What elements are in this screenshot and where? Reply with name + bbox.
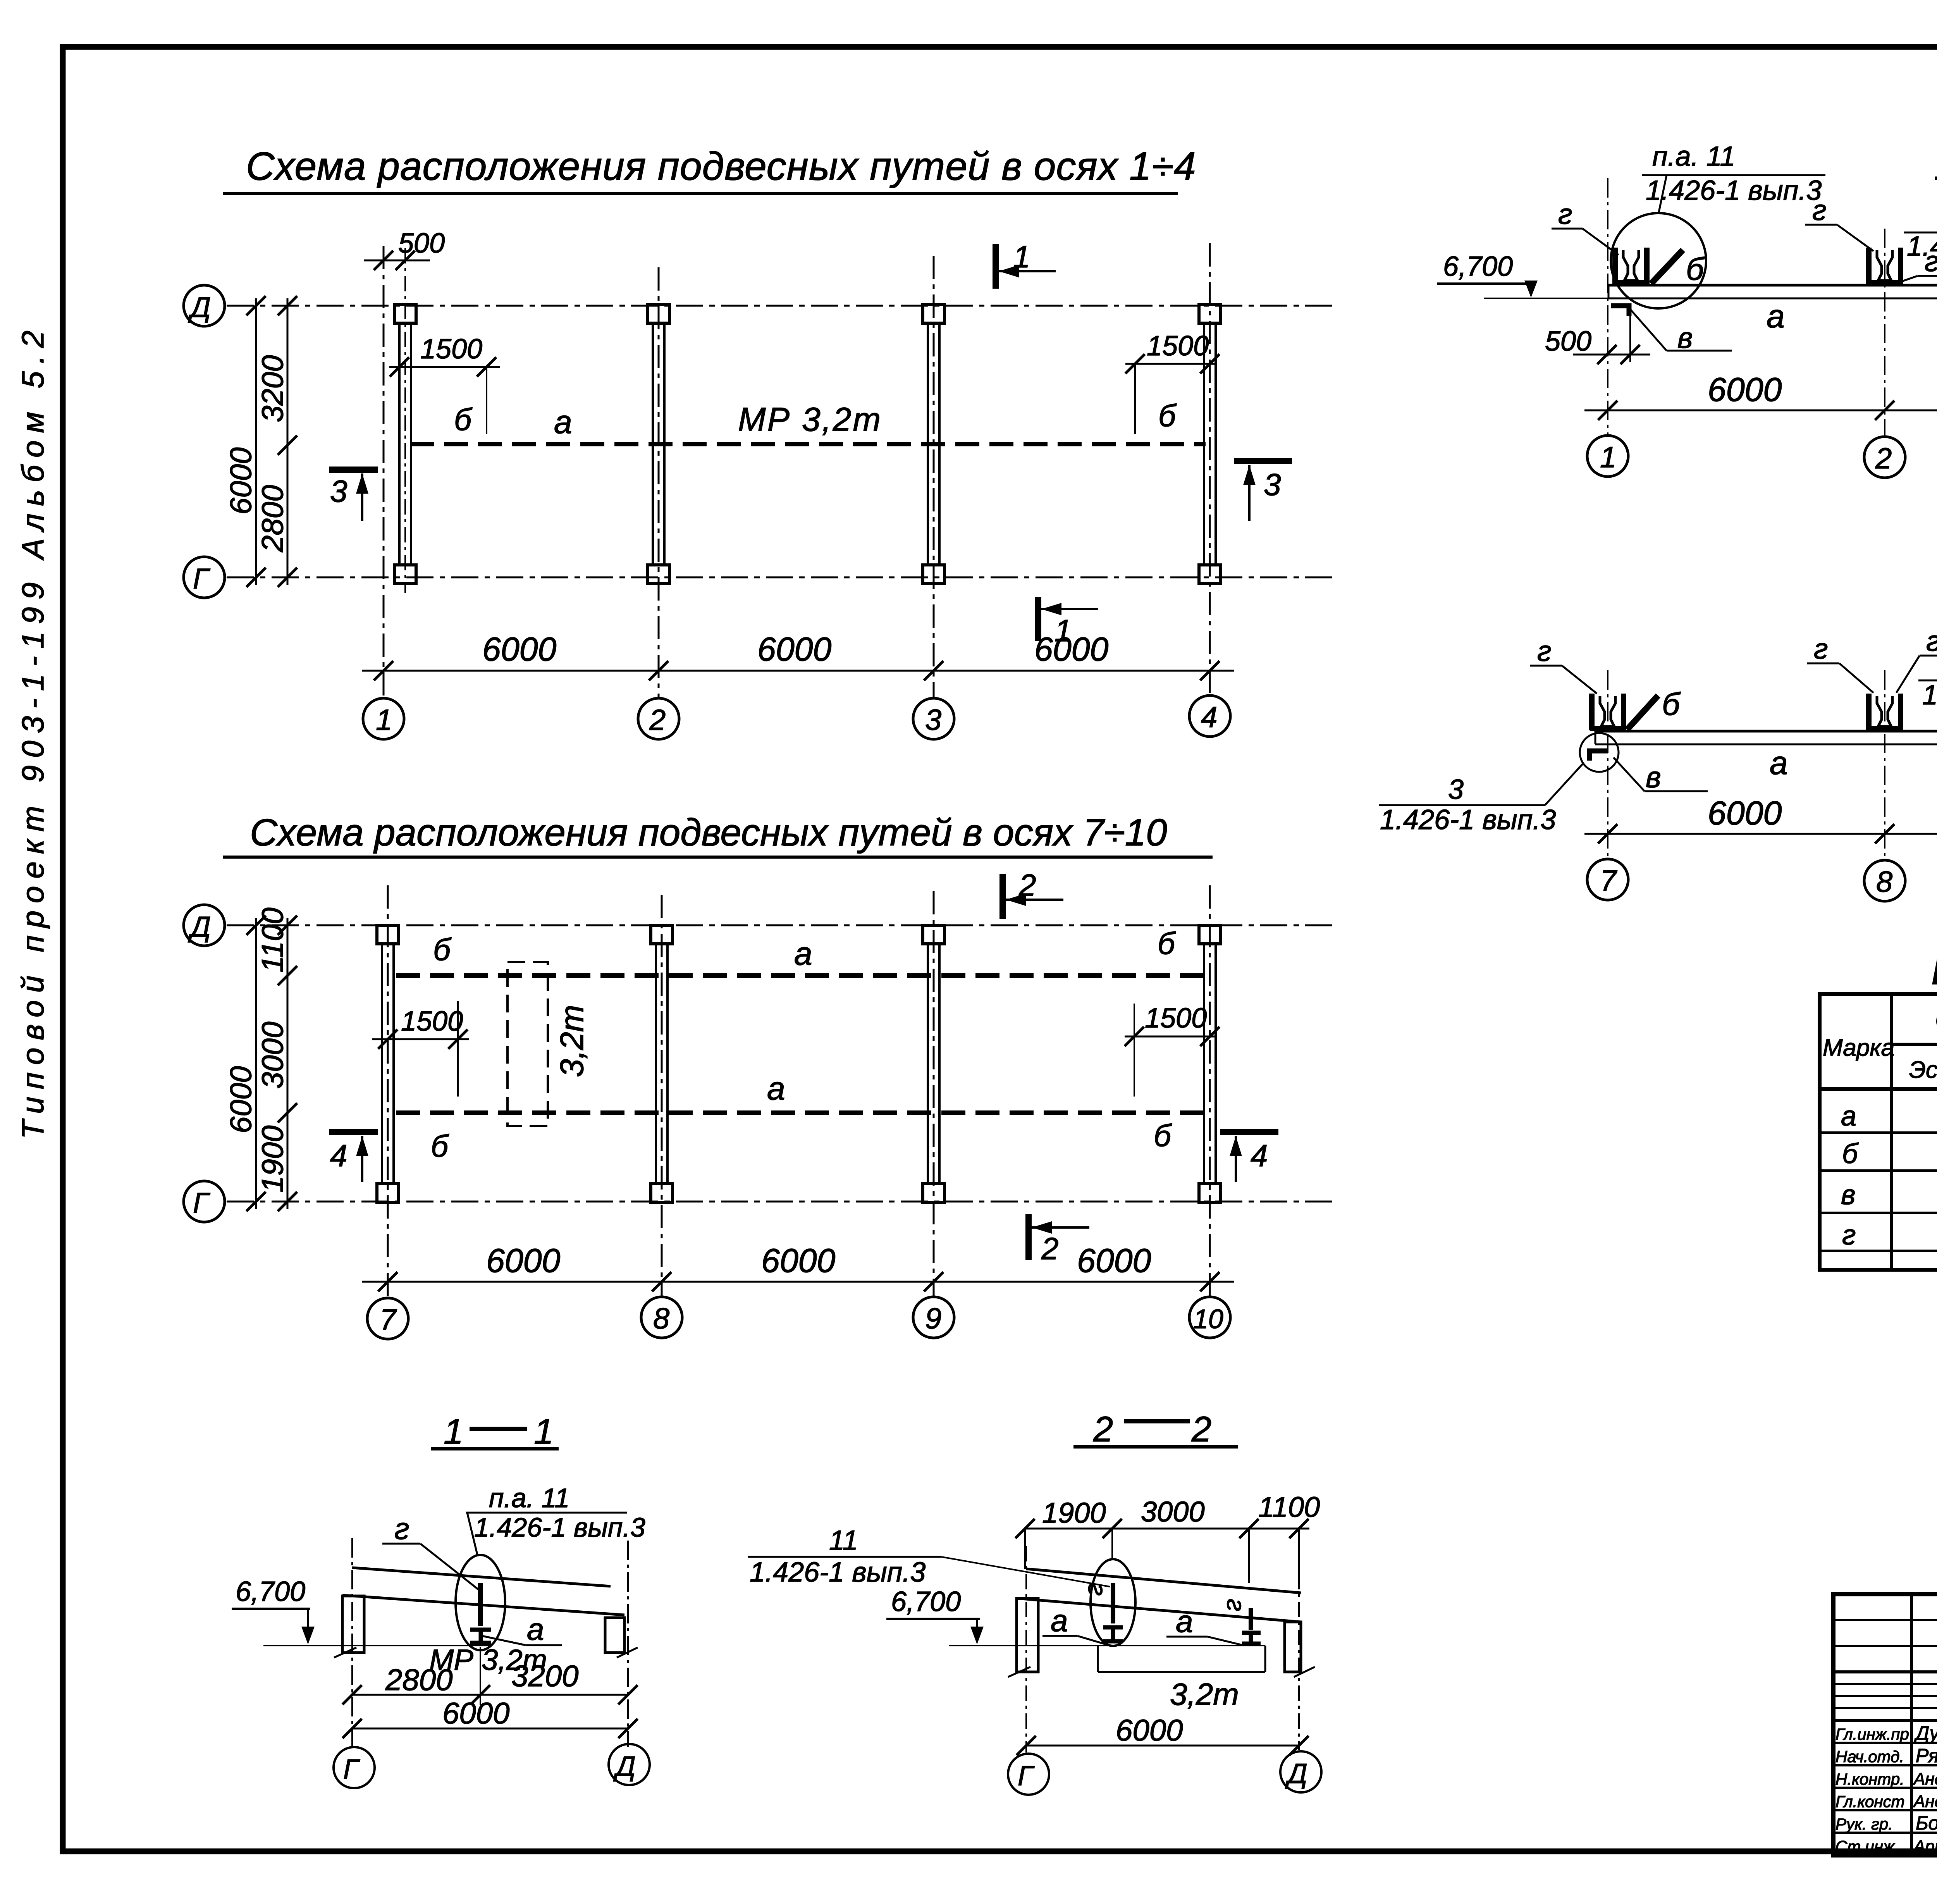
svg-text:г: г (1083, 1583, 1112, 1596)
column square 8Д (651, 925, 673, 944)
svg-text:г: г (1842, 1220, 1856, 1251)
sec4-4 label 1 center (1918, 650, 1937, 728)
sec2-2 label g rot 1 (1083, 1583, 1112, 1596)
svg-text:а: а (1841, 1101, 1856, 1132)
section mark 1 bottom (1038, 597, 1098, 648)
svg-text:1.426-1 вып.3: 1.426-1 вып.3 (1646, 175, 1822, 206)
svg-text:а: а (1176, 1604, 1193, 1639)
sec1-1 rail I symbol (470, 1630, 491, 1643)
svg-text:1100: 1100 (1258, 1491, 1320, 1523)
sec4-4 rail beam (1595, 731, 1937, 744)
svg-text:1.426-1вып.3: 1.426-1вып.3 (1907, 231, 1937, 262)
sec4-4 label g8b (1896, 625, 1937, 693)
sec4-4 label g7 (1530, 635, 1597, 694)
svg-text:Г: Г (1018, 1761, 1035, 1792)
svg-text:б: б (1158, 926, 1176, 961)
dim chain 6000 vertical plan2 (224, 916, 266, 1211)
sec1-1 axis Д line (627, 1541, 629, 1747)
svg-text:8: 8 (653, 1302, 669, 1335)
svg-text:б: б (433, 932, 452, 967)
axis Г2 row line (227, 1201, 1335, 1203)
sec3-3 label 1 center (1904, 204, 1937, 283)
svg-text:10: 10 (1193, 1304, 1223, 1334)
svg-text:3200: 3200 (511, 1659, 579, 1693)
sec1-1 label a (482, 1612, 562, 1646)
axis Д2 row line (227, 924, 1335, 926)
title signature names (1913, 1722, 1937, 1856)
column square 10Д (1199, 925, 1221, 944)
svg-text:п.а. 11: п.а. 11 (1652, 141, 1735, 172)
sec2-2 rail I symbol 1 (1103, 1627, 1123, 1641)
svg-text:г: г (1537, 635, 1552, 667)
svg-text:1.426-1 вып.3: 1.426-1 вып.3 (474, 1512, 645, 1542)
sec2-2 hoist outline box (1098, 1646, 1265, 1711)
svg-text:1500: 1500 (401, 1006, 463, 1037)
sec3-3 dim line 6000 (1584, 371, 1937, 420)
svg-text:Думан: Думан (1914, 1722, 1937, 1744)
dim chain 1100/3000/1900 vertical (255, 907, 297, 1211)
section mark 1 top (996, 239, 1056, 289)
svg-text:б: б (454, 402, 473, 437)
sec3-3 hanger channel 2 (1867, 248, 1903, 284)
svg-text:2: 2 (1875, 442, 1892, 475)
sec2-2 elevation 6.700 (886, 1586, 1265, 1646)
vedomost header texts (1823, 999, 1937, 1089)
axis 9 line (933, 891, 935, 1298)
sec1-1 axis Г line (351, 1538, 353, 1747)
svg-text:1500: 1500 (420, 334, 482, 365)
label b lower right (1154, 1118, 1172, 1153)
svg-text:6000: 6000 (1116, 1713, 1183, 1747)
svg-text:а: а (1767, 298, 1785, 334)
section mark 4 right (1220, 1132, 1278, 1182)
svg-text:1: 1 (534, 1412, 554, 1451)
sec1-1 dim 6000 (342, 1696, 638, 1738)
column square 4Д (1199, 305, 1221, 323)
svg-text:6000: 6000 (1034, 631, 1108, 668)
section mark 3 right (1234, 461, 1292, 521)
sec2-2 axis stubs (1026, 1546, 1299, 1753)
sec2-2 column Г (1008, 1598, 1038, 1677)
axis bubble 4 (1189, 695, 1230, 737)
svg-text:1900: 1900 (1042, 1497, 1106, 1529)
svg-text:1.426-1 вып.3: 1.426-1 вып.3 (1380, 804, 1556, 835)
svg-text:4: 4 (1201, 701, 1217, 734)
svg-text:1900: 1900 (255, 1125, 289, 1193)
beam member axis9 (928, 944, 939, 1184)
svg-text:Ст.инж.: Ст.инж. (1836, 1837, 1899, 1856)
svg-text:2: 2 (1191, 1410, 1211, 1449)
section mark 2 top (1003, 868, 1063, 919)
svg-text:г: г (1558, 198, 1572, 230)
sec2-2 column Д (1285, 1622, 1315, 1677)
title block frame (1833, 1594, 1937, 1855)
sec4-4 bubble 7 (1587, 859, 1628, 900)
vedomost header lines (1820, 1044, 1937, 1089)
svg-text:Рук. гр.: Рук. гр. (1836, 1815, 1893, 1833)
sec2-2 bubble Г (1008, 1754, 1049, 1795)
beam member axis3 (928, 323, 939, 565)
beam member axis1 (399, 323, 411, 565)
svg-text:а: а (1051, 1603, 1068, 1638)
column square 1Д (394, 305, 416, 323)
sec4-4 label g8a (1807, 633, 1873, 693)
sec3-3 axis1 line (1607, 178, 1608, 436)
svg-text:3000: 3000 (255, 1021, 289, 1089)
label a lower (767, 1070, 785, 1107)
svg-text:в: в (1646, 761, 1661, 794)
title block left grid (1833, 1594, 1937, 1855)
svg-text:Андриевская: Андриевская (1913, 1770, 1937, 1789)
svg-text:1: 1 (1013, 239, 1030, 274)
sec1-1 roof chord lower (342, 1595, 624, 1615)
dim 1500 plan2 right (1125, 1003, 1220, 1097)
label b right (1158, 398, 1177, 433)
sec3-3 label g2b (1897, 245, 1937, 283)
column square 4Г (1199, 565, 1221, 584)
sec2-2 label g rot 2 (1222, 1599, 1251, 1611)
hanger line axis1 offset (404, 248, 406, 593)
svg-text:Гл.инж.пр: Гл.инж.пр (1836, 1725, 1909, 1743)
sec3-3 detail circle axis1 (1611, 213, 1706, 308)
sec4-4 label v7 (1614, 757, 1708, 794)
vedomost row marks (1841, 1101, 1859, 1251)
sec2-2 bubble Д (1280, 1751, 1321, 1792)
axis Г row line (227, 577, 1335, 578)
column square 8Г (651, 1184, 673, 1202)
svg-text:7: 7 (380, 1303, 397, 1336)
dim 1500 right (1125, 331, 1220, 434)
svg-text:Г: Г (193, 1187, 210, 1219)
svg-text:г: г (1814, 633, 1828, 665)
svg-text:6,700: 6,700 (1443, 251, 1513, 282)
section 2-2 title (1073, 1410, 1238, 1449)
vedomost table frame (1820, 994, 1937, 1270)
sec3-3 brace b1 (1651, 250, 1705, 287)
column square 9Д (923, 925, 944, 944)
sec4-4 label a left (1770, 745, 1788, 781)
axis Д2 bubble (184, 905, 225, 946)
plan1 bottom dim line (362, 631, 1234, 680)
svg-text:б: б (431, 1129, 449, 1163)
sec3-3 corner angle left (1611, 306, 1629, 316)
monorail a upper dashed (396, 973, 1206, 978)
svg-text:1: 1 (1600, 441, 1616, 474)
sec3-3 hanger channel 1 (1613, 248, 1649, 284)
svg-text:Схема расположения подвесных п: Схема расположения подвесных путей в ося… (246, 144, 1196, 188)
svg-text:Д: Д (613, 1751, 636, 1782)
margin stamp text (15, 323, 50, 1139)
label a upper (794, 935, 812, 972)
svg-text:а: а (527, 1612, 544, 1646)
axis 4 line (1209, 243, 1211, 697)
svg-text:Д: Д (188, 291, 211, 323)
sec1-1 elevation 6.700 (232, 1576, 491, 1646)
svg-text:б: б (1158, 398, 1177, 433)
svg-text:3: 3 (925, 704, 941, 737)
sec3-3 rail beam (1608, 285, 1937, 298)
sec4-4 dim line 6000 (1584, 795, 1937, 844)
plan2 bottom dim line (362, 1242, 1234, 1291)
svg-text:3: 3 (1448, 774, 1464, 805)
svg-text:г: г (1812, 194, 1827, 226)
sec4-4 corner angle left + circle (1580, 733, 1619, 772)
svg-text:6000: 6000 (1708, 795, 1782, 832)
sec3-3 bubble 1 (1587, 436, 1628, 477)
column square 3Д (923, 305, 944, 323)
section mark 2 bottom (1029, 1214, 1089, 1266)
svg-text:6000: 6000 (486, 1242, 560, 1279)
sec2-2 label a 2 (1166, 1604, 1243, 1645)
vedomost row lines (1820, 1133, 1937, 1251)
svg-text:Рябуха: Рябуха (1916, 1745, 1937, 1766)
svg-text:6000: 6000 (442, 1696, 510, 1730)
sec3-3 axis2 line (1884, 229, 1885, 437)
axis Д row line (227, 305, 1335, 307)
svg-text:8: 8 (1876, 866, 1892, 899)
sec1-1 column Г (334, 1596, 364, 1658)
svg-text:Г: Г (343, 1754, 360, 1785)
sec1-1 bubble Г (334, 1747, 375, 1788)
svg-text:Г: Г (193, 563, 210, 595)
axis Г2 bubble (184, 1181, 225, 1222)
svg-text:6000: 6000 (757, 631, 831, 668)
sec4-4 brace b7 (1627, 687, 1681, 730)
axis bubble 8 (641, 1297, 682, 1338)
sec2-2 top dims 1900/3000/1100 (1015, 1491, 1320, 1589)
sec3-3 label g2 (1805, 194, 1873, 251)
svg-text:6000: 6000 (224, 447, 258, 515)
svg-text:в: в (1677, 322, 1693, 355)
sec4-4 hanger channel 8 (1867, 694, 1903, 730)
sec3-3 label g1 (1552, 198, 1619, 255)
svg-text:6,700: 6,700 (891, 1586, 961, 1617)
svg-text:3000: 3000 (1141, 1496, 1205, 1528)
label b left (454, 402, 473, 437)
plan 2 title (223, 811, 1213, 857)
sec3-3 bubble 2 (1864, 437, 1905, 478)
svg-text:Д: Д (188, 911, 211, 943)
svg-text:2: 2 (1093, 1410, 1113, 1449)
beam member axis4 (1204, 323, 1216, 565)
vedomost col lines (1892, 994, 1937, 1270)
svg-text:а: а (794, 935, 812, 972)
column square 1Г (394, 565, 416, 584)
monorail MP dashed (410, 442, 1206, 446)
svg-text:2: 2 (649, 704, 666, 737)
svg-text:7: 7 (1600, 864, 1617, 897)
svg-text:Артамонова: Артамонова (1913, 1837, 1937, 1856)
column square 7Г (377, 1184, 399, 1202)
sec3-3 elevation 6.700 (1437, 251, 1608, 298)
svg-text:Типовой проект 903-1-199: Типовой проект 903-1-199 Альбом 5.2 (15, 323, 50, 1139)
axis bubble 10 (1189, 1297, 1230, 1338)
axis bubble 2 (638, 698, 679, 739)
sec2-2 roof chord lower (1017, 1598, 1301, 1622)
axis bubble 3 (913, 698, 954, 739)
svg-text:Н.контр.: Н.контр. (1836, 1770, 1904, 1788)
dim 1500 left (389, 334, 500, 434)
sec2-2 dim 6000 (1017, 1713, 1309, 1755)
label b upper right (1158, 926, 1176, 961)
svg-text:6000: 6000 (761, 1242, 835, 1279)
sec1-1 dim 2800/3200 (342, 1647, 638, 1705)
axis Д bubble (184, 285, 225, 326)
axis 2 line (658, 267, 660, 697)
sec2-2 rail I symbol 2 (1242, 1633, 1261, 1644)
svg-text:г: г (394, 1511, 409, 1546)
svg-text:1: 1 (444, 1412, 463, 1451)
dim chain 3200/2800 vertical (255, 296, 297, 587)
column square 3Г (923, 565, 944, 584)
svg-text:11: 11 (829, 1525, 858, 1556)
monorail a lower dashed (396, 1110, 1206, 1115)
svg-text:3200: 3200 (255, 355, 289, 422)
svg-text:1.426-1 вып.3: 1.426-1 вып.3 (1922, 680, 1937, 711)
dim 1500 plan2 left (372, 1001, 469, 1097)
svg-text:г: г (1222, 1599, 1251, 1611)
sec2-2 hanger rod 1 (1111, 1583, 1115, 1623)
sec3-3 label pa11 (1642, 141, 1825, 214)
svg-text:2800: 2800 (255, 485, 289, 553)
svg-text:б: б (1842, 1138, 1859, 1169)
sec4-4 label 3 left (1379, 764, 1583, 835)
svg-text:6000: 6000 (1708, 371, 1782, 408)
svg-text:Ведомость: Ведомость (1931, 948, 1937, 993)
sec2-2 hanger rod 2 (1249, 1608, 1253, 1630)
sec1-1 label MP32 (429, 1644, 547, 1677)
sec4-4 axis7 line (1607, 670, 1608, 859)
svg-text:а: а (767, 1070, 785, 1107)
svg-text:6000: 6000 (224, 1066, 258, 1133)
sec4-4 axis8 line (1884, 670, 1885, 861)
axis Г bubble (184, 557, 225, 598)
svg-text:500: 500 (1545, 326, 1591, 357)
section mark 4 left (329, 1132, 378, 1182)
svg-text:1: 1 (376, 704, 392, 737)
svg-text:1100: 1100 (255, 907, 289, 973)
svg-text:3: 3 (1264, 467, 1281, 502)
dim 500 top (364, 228, 445, 270)
svg-text:Гл.конст: Гл.конст (1836, 1792, 1905, 1811)
sec3-3 label a left (1767, 298, 1785, 334)
sec2-2 roof chord upper (1026, 1569, 1301, 1593)
axis bubble 7 (367, 1298, 408, 1339)
dim chain 6000 vertical (224, 296, 266, 587)
section mark 3 left (329, 470, 378, 521)
svg-text:6000: 6000 (482, 631, 556, 668)
svg-text:Д: Д (1285, 1758, 1307, 1789)
axis 8 line (661, 895, 663, 1298)
svg-text:а: а (1770, 745, 1788, 781)
sec2-2 label a 1 (1042, 1603, 1109, 1645)
sec1-1 label pa11 (466, 1483, 645, 1556)
axis 1 line (383, 246, 385, 697)
svg-text:Сечение: Сечение (1935, 1005, 1937, 1035)
svg-text:6000: 6000 (1077, 1242, 1151, 1279)
section 3-3 title (1935, 136, 1937, 181)
svg-text:б: б (1154, 1118, 1172, 1153)
svg-text:4: 4 (330, 1138, 347, 1173)
svg-text:а: а (554, 404, 572, 440)
svg-text:Андриевская: Андриевская (1913, 1792, 1937, 1811)
axis 7 line (387, 885, 389, 1298)
sec4-4 bubble 8 (1864, 860, 1905, 901)
plan 1 title (223, 144, 1196, 194)
svg-text:Бобрук: Бобрук (1916, 1812, 1937, 1834)
svg-text:в: в (1841, 1179, 1856, 1210)
sec1-1 detail oval (456, 1555, 505, 1650)
svg-text:9: 9 (925, 1302, 941, 1335)
axis 10 line (1209, 885, 1211, 1298)
axis bubble 1 (363, 698, 404, 739)
beam member axis10 (1204, 944, 1216, 1184)
sec3-3 label v1 (1630, 309, 1732, 355)
axis bubble 9 (913, 1297, 954, 1338)
beam member axis2 (653, 323, 664, 565)
svg-text:г: г (1926, 625, 1937, 657)
title signature labels (1836, 1725, 1909, 1856)
svg-text:б: б (1662, 687, 1681, 722)
hoist dashed rect (507, 962, 590, 1126)
svg-text:МР 3,2т: МР 3,2т (738, 401, 882, 438)
svg-text:3,2т: 3,2т (1170, 1677, 1239, 1711)
svg-text:1.426-1 вып.3: 1.426-1 вып.3 (750, 1557, 925, 1588)
svg-text:2800: 2800 (385, 1663, 453, 1697)
sec1-1 column Д (605, 1618, 638, 1658)
svg-text:Эскиз: Эскиз (1909, 1057, 1937, 1083)
svg-text:Схема расположения подвесных: Схема расположения подвесных путей в ося… (250, 811, 1167, 854)
column square 10Г (1199, 1184, 1221, 1202)
svg-text:п.а. 11: п.а. 11 (489, 1483, 569, 1513)
svg-text:Марка: Марка (1823, 1035, 1894, 1061)
label b lower left (431, 1129, 449, 1163)
section 1-1 title (431, 1412, 559, 1451)
sec1-1 hanger rod (478, 1583, 483, 1626)
column square 2Д (648, 305, 669, 323)
sec1-1 label g (382, 1511, 479, 1590)
sec2-2 detail oval (1091, 1559, 1135, 1646)
sec3-3 dim 500 left (1545, 306, 1650, 364)
svg-text:1500: 1500 (1145, 1003, 1207, 1034)
vedomost title (1931, 948, 1937, 993)
svg-text:6,700: 6,700 (236, 1576, 305, 1607)
column square 2Г (648, 565, 669, 584)
label b upper left (433, 932, 452, 967)
svg-text:2: 2 (1018, 868, 1036, 902)
beam member axis7 (382, 944, 394, 1184)
label a (554, 404, 572, 440)
svg-text:3,2т: 3,2т (554, 1005, 590, 1077)
sec1-1 bubble Д (609, 1744, 650, 1785)
sec4-4 hanger channel 7 (1590, 694, 1626, 730)
svg-text:Нач.отд.: Нач.отд. (1836, 1747, 1904, 1766)
beam member axis8 (656, 944, 667, 1184)
svg-text:4: 4 (1251, 1138, 1268, 1173)
sec1-1 roof chord upper (352, 1568, 611, 1586)
axis 3 line (933, 256, 935, 697)
column square 9Г (923, 1184, 944, 1202)
sec2-2 label 11 (748, 1525, 1110, 1588)
svg-text:3: 3 (330, 474, 347, 508)
column square 7Д (377, 925, 399, 944)
svg-text:1500: 1500 (1147, 331, 1209, 362)
label MP 3.2t (738, 401, 882, 438)
svg-text:2: 2 (1041, 1231, 1059, 1266)
